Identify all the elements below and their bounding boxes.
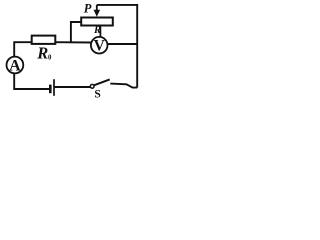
ammeter A xyxy=(7,57,24,75)
battery positive plate (long) xyxy=(53,79,55,96)
wire bottom right to switch xyxy=(110,84,137,88)
switch S pivot xyxy=(90,84,94,88)
svg-text:A: A xyxy=(9,57,21,74)
voltmeter V xyxy=(91,37,108,54)
wire rheostat bottom to voltmeter xyxy=(99,26,101,37)
svg-text:P: P xyxy=(84,2,92,16)
svg-text:0: 0 xyxy=(48,54,52,61)
rheostat wiper arrow xyxy=(94,5,101,17)
label R0 xyxy=(36,44,52,63)
wire top: wiper to right side xyxy=(97,5,137,88)
battery negative plate (short) xyxy=(49,85,52,94)
wire switch to battery xyxy=(55,86,91,88)
resistor R0 box xyxy=(32,36,56,44)
wire resistor R0 to voltmeter node xyxy=(55,41,91,43)
wire battery to ammeter bottom xyxy=(14,74,49,90)
rheostat R box xyxy=(81,18,113,26)
svg-text:R: R xyxy=(36,44,48,63)
switch S lever xyxy=(94,79,110,85)
svg-text:S: S xyxy=(94,88,100,100)
wire voltmeter right to loop xyxy=(108,43,138,45)
svg-text:V: V xyxy=(94,37,106,54)
wire node up to rheostat left terminal xyxy=(71,22,81,42)
wire ammeter top to resistor R0 xyxy=(14,42,31,57)
